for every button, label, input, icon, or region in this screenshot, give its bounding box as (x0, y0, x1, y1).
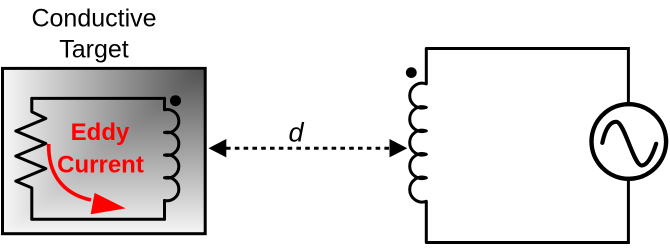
inductor L2 (target eddy loop coil, 4 bumps bulging right) (165, 98, 179, 219)
left arrowhead (209, 139, 227, 157)
AC sine wave (602, 122, 656, 166)
red eddy-current arrow (curved) (49, 144, 91, 200)
polarity dot (sensor coil) (406, 67, 417, 78)
AC source V1 (circle) (592, 104, 667, 179)
sensor circuit: bottom-right wire and bottom wire (426, 179, 628, 243)
polarity dot (left coil) (170, 95, 181, 106)
wire (eddy loop, bottom) (32, 218, 165, 221)
distance arrow d (dashed, double-headed) (226, 147, 390, 150)
svg-text:Eddy: Eddy (71, 119, 130, 146)
svg-text:Current: Current (57, 152, 144, 179)
outer box of conductive target (3, 68, 206, 233)
svg-text:Conductive: Conductive (31, 5, 156, 33)
conductive target gradient plate (4, 70, 204, 232)
resistor R (eddy path resistance, left zigzag) (16, 98, 46, 219)
sensor circuit: top wire and right wire to source (426, 49, 628, 105)
red arrowhead (91, 194, 124, 214)
svg-text:Target: Target (59, 36, 129, 64)
inductor L1 (sensor coil, 5 bumps bulging left) (410, 49, 427, 243)
svg-text:d: d (288, 117, 304, 147)
right arrowhead (390, 139, 408, 157)
wire (eddy loop, top) (32, 97, 165, 100)
